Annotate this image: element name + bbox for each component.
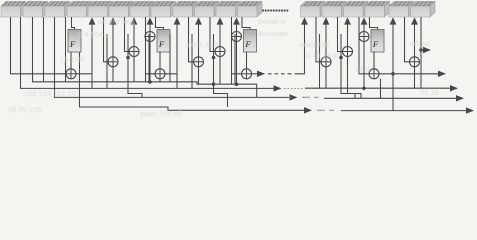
xor stage4 word3 [343, 47, 353, 57]
function box F (stage3) [244, 30, 257, 53]
stage3 word1 edge wire down to bus89 [191, 34, 193, 88]
stage2 riser1 extension down to bus89.5 [91, 74, 93, 89]
junction stage5 riser1 / bus73.8 [391, 72, 395, 76]
register cell stage1 word3 [45, 2, 70, 18]
register cell stage2 word1 [88, 2, 113, 18]
xor stage3 word1 (F input) [155, 69, 165, 79]
wire under F1 down to bus y107 [80, 52, 305, 110]
register cell stage4 word2 [322, 2, 347, 18]
register cell stage1 word4 [67, 2, 92, 18]
xor stage5 word1 (F4 input) [369, 69, 379, 79]
stage2 word4 edge wire down to bus82 [169, 34, 171, 82]
xor2 bottom input from bus82 [112, 67, 114, 82]
wire xor1 output right and up riser into stage3 word1 [165, 21, 177, 74]
wire stage2 word3 value down into next xor1 [146, 37, 156, 74]
svg-text:19 3: 19 3 [355, 65, 370, 74]
arrow into stage4 word4 [361, 17, 368, 32]
svg-text:F: F [69, 39, 76, 49]
register cell stage5 word2 [411, 2, 436, 18]
wire stage3 word1 value down into xor2 [189, 17, 194, 62]
junction stage4 xor4 / bus88.3 [362, 87, 366, 91]
arrow into stage2 word2 [110, 17, 117, 57]
svg-text:15 1 05: 15 1 05 [60, 55, 85, 64]
svg-text:F: F [244, 39, 251, 49]
wire stage3 word2 value down into xor3 [210, 17, 215, 52]
xor stage2 word4 [145, 32, 155, 42]
xor stage4 word2 [321, 57, 331, 67]
svg-text:156 194 114 10: 156 194 114 10 [24, 89, 76, 98]
stage2 word3 edge wire down to bus82 [148, 34, 150, 82]
stage4 word1 edge wire down to bus88.3 [319, 34, 321, 88]
xor3 bottom stub to bus82 [133, 56, 135, 82]
wire stage3 word3 value down into next xor1 [232, 37, 242, 74]
junction output tap y50 [419, 48, 423, 52]
arrow into stage3 word1 [174, 17, 181, 25]
stage3 word3 value line extends to bus82 [231, 74, 233, 84]
junction stage3 word2-edge / bus82 [212, 82, 216, 86]
xor2 stage4 bottom to bus88.3 [325, 67, 327, 89]
xor4 stage4 bottom to bus88.3 [363, 41, 365, 88]
arrow into stage3 word4 [233, 17, 240, 32]
junction stage3 word2-edge tap [212, 56, 216, 60]
function box F (stage4) [371, 30, 384, 53]
register cell stage3 word1 [173, 2, 198, 18]
xor after F3 (omitted stage input) [242, 69, 252, 79]
svg-text:0 4 504-1: 0 4 504-1 [78, 30, 110, 39]
xor4 bottom down to bus82 junction [149, 41, 151, 82]
svg-text:ыб во: ыб во [410, 39, 430, 48]
wire stage3 word3 value branch into xor4 [231, 17, 233, 37]
arrow into stage4 word2 [323, 17, 330, 57]
register cell stage3 word2 [195, 2, 220, 18]
dashed bus y73.8 into stage4 riser1 [288, 73, 297, 75]
junction stage2 word2-edge tap [126, 56, 130, 60]
stage5 word2 downline to bus88.3 with output branch y50 [420, 17, 422, 88]
wire F2 output down to xor [159, 52, 161, 69]
svg-text:05 18: 05 18 [420, 88, 439, 97]
wire F3 output down to xor [246, 52, 248, 69]
svg-text:ичлив-е: ичлив-е [258, 17, 285, 26]
svg-text:16 45 216: 16 45 216 [8, 105, 41, 114]
elbow stage2 word4 into F [156, 17, 164, 30]
wire stage1 w1 center down to bus y73.8 [11, 17, 67, 74]
wire stage4 word2 value down into xor3 [338, 17, 343, 52]
wire stage4 word1 value down into xor2 [316, 17, 321, 62]
xor stage2 word2 [108, 57, 118, 67]
stage2 word1 edge wire down to bus89 [106, 34, 108, 88]
stage3 word2 edge wire jog to lower bus [214, 34, 228, 107]
stage2 word2 edge wire jog to lower bus [128, 34, 142, 97]
wire bus y73.8 right and up riser into stage4 word1 [296, 21, 305, 74]
arrow into stage5 word1 [390, 17, 397, 25]
function box F (stage1) [68, 30, 81, 53]
svg-text:F: F [372, 39, 379, 49]
junction stage2 xor4 / bus82 [148, 80, 152, 84]
xor2 stage5 bottom down to bus88.3 [414, 67, 416, 89]
elbow stage3 word4 into F [242, 17, 250, 30]
register cell stage3 word4 [238, 2, 263, 18]
svg-text:витыние: витыние [258, 29, 288, 38]
stage3 riser1 extension down to bus89.5 [176, 74, 178, 89]
arrow into stage4 word3 [344, 17, 351, 47]
svg-text:а псе 113: а псе 113 [185, 40, 217, 49]
wire F1 output down to xor [70, 52, 72, 69]
xor stage3 word2 [194, 57, 204, 67]
xor3 bottom stub to bus82 [219, 56, 221, 84]
bus y73.8 continues right to output arrow [393, 73, 438, 75]
wire F4 output down to xor [373, 52, 375, 69]
svg-text:F: F [158, 39, 165, 49]
wire stage2 word2 value down into xor3 [125, 17, 130, 52]
wire xor1 output right and up riser into stage2 word1 [76, 21, 92, 74]
wire stage2 word3 value branch into xor4 [144, 17, 146, 37]
stage2 word3 value line extends to bus82 [145, 74, 147, 82]
stage4 word2 edge wire jog to bus98.3 [341, 34, 355, 98]
svg-text:ол вте нед: ол вте нед [98, 17, 135, 26]
wire stage4 word3 value down into xor4 [358, 17, 360, 37]
register cell stage5 word1 [389, 2, 414, 18]
xor4 bottom down to bus82 junction [236, 41, 238, 84]
arrow into stage3 word2 [195, 17, 202, 57]
register cell stage1 word2 [23, 2, 48, 18]
xor stage3 word4 [232, 32, 242, 42]
arrow into stage5 word2 [411, 17, 418, 57]
junction stage4 word2-edge tap [339, 56, 343, 60]
arrow into stage2 word4 [147, 17, 154, 32]
register cell stage2 word4 [151, 2, 176, 18]
xor stage3 word3 [215, 47, 225, 57]
wire stage1 w2 center down to bus y82 merging into bus y89 [33, 17, 257, 97]
xor stage2 word3 [129, 47, 139, 57]
arrow into stage4 word1 [301, 17, 308, 25]
wire stage1 w1 edge down to bus y89 [21, 17, 274, 88]
arrow into stage3 word3 [217, 17, 224, 47]
stage5 riser1 extension down to bus110.5 [392, 74, 394, 111]
junction stage3 xor4 / bus82 [235, 82, 239, 86]
wire xor1 stage5 right and up riser [379, 21, 393, 74]
svg-text:редо 315 об: редо 315 об [140, 109, 182, 118]
arrow into stage2 word3 [131, 17, 138, 47]
wire xor output right to arrow + dashes y73.8 [251, 73, 257, 75]
xor3 stage4 bottom jog to bus98.5 [348, 56, 362, 98]
ellipsis dots: omitted register cells [262, 9, 289, 11]
xor stage5 word2 [410, 57, 420, 67]
stage3 xor1 column down to bus82 [159, 79, 161, 82]
xor stage2 word1 (F input) [66, 69, 76, 79]
xor2 bottom input from bus82 [198, 67, 200, 85]
arrow into stage2 word1 [89, 17, 96, 25]
register cell stage3 word3 [216, 2, 241, 18]
function box F (stage2) [157, 30, 170, 53]
register cell stage2 word3 [130, 2, 155, 18]
wire stage4 word3 value down to next xor1 [359, 37, 369, 74]
wire stage1 w2 edge down to bus82 (merge) [43, 17, 45, 82]
wire stage5 word1 value down into xor2 [405, 17, 410, 62]
svg-text:нике гро: нике гро [300, 40, 329, 49]
register cell stage4 word4 [365, 2, 390, 18]
wire stage1 w3 edge down to bus82 (merge) [65, 17, 67, 82]
register cell stage4 word1 [301, 2, 326, 18]
arrowhead bus y110.3 + faint dash + resume to right arrow [304, 107, 312, 113]
elbow stage4 word4 into F [370, 17, 378, 30]
stage3 word3 edge wire down to bus82 [234, 34, 236, 84]
faint bleed-through scan text [8, 17, 439, 118]
wire stage2 word1 value down into xor2 [104, 17, 109, 62]
arrowhead bus y96.8 + faint dash + resume to right arrow [290, 94, 298, 100]
elbow stage1 word4 into F [72, 17, 75, 30]
arrowhead bus y89 + dotted continuation + resume to right arrow [274, 85, 282, 91]
register cell stage2 word2 [109, 2, 134, 18]
xor stage4 word4 [359, 32, 369, 42]
wire stage1 w3 center down to bus y97.4 [55, 17, 290, 97]
stage4 F column down to bus98.3 [380, 79, 382, 99]
svg-text:3 10 14 9: 3 10 14 9 [306, 51, 337, 60]
register cell stage4 word3 [344, 2, 369, 18]
register cell stage1 word1 [1, 2, 26, 18]
